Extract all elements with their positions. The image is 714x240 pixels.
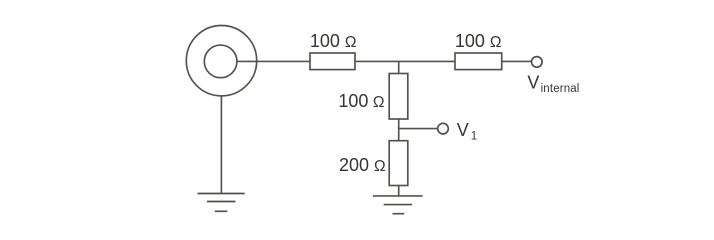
svg-text:internal: internal [541,83,580,95]
svg-text:V: V [527,72,539,92]
svg-text:Ω: Ω [345,34,357,51]
svg-text:V: V [457,120,469,140]
svg-text:1: 1 [471,130,477,142]
svg-text:100: 100 [310,31,340,51]
svg-text:Ω: Ω [373,94,385,111]
svg-text:Ω: Ω [490,34,502,51]
svg-text:100: 100 [455,31,485,51]
svg-text:200: 200 [339,155,369,175]
svg-text:100: 100 [338,91,368,111]
svg-text:Ω: Ω [374,158,386,175]
